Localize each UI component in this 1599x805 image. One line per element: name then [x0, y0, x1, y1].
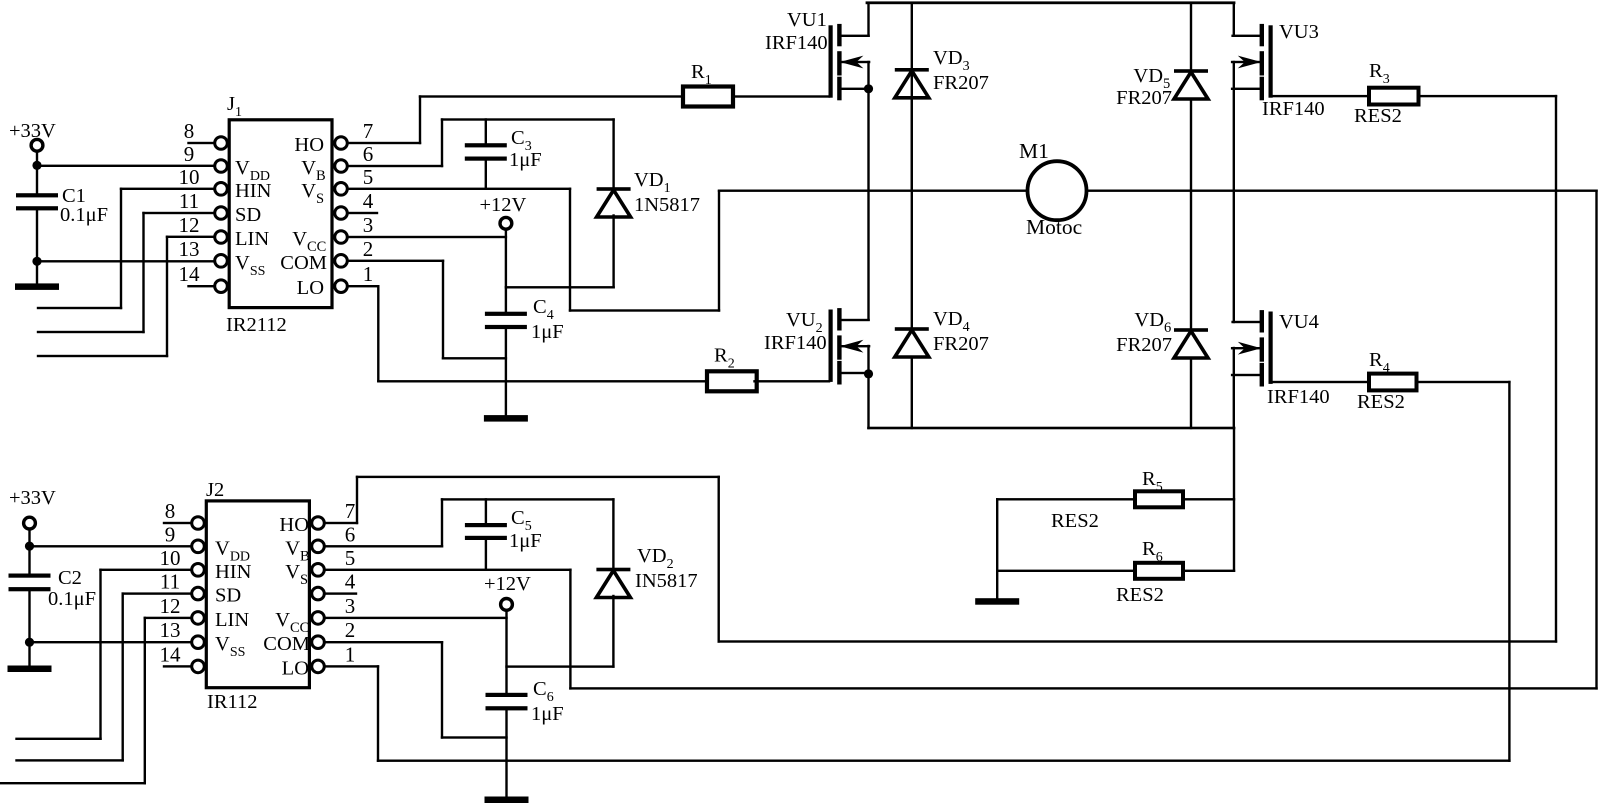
wire J2 LIN input	[144, 617, 193, 619]
VU2 channel dashes	[837, 308, 841, 330]
svg-text:3: 3	[363, 213, 374, 237]
wire J2 LO route to R4 column	[323, 665, 379, 667]
svg-text:RES2: RES2	[1357, 391, 1405, 413]
wire +33V to C1	[36, 150, 38, 194]
IC U1 IR2112 body	[229, 120, 332, 308]
svg-text:HIN: HIN	[215, 561, 252, 583]
diode VD5 FR207 upper-right	[1190, 2, 1192, 73]
diode VD3 FR207 upper-left	[911, 2, 913, 192]
diode VD1 1N5817 bootstrap	[612, 118, 614, 190]
ground G2	[484, 415, 528, 422]
wire VU3 source rail down to VU4 drain	[1233, 61, 1235, 323]
svg-text:9: 9	[184, 142, 195, 166]
J1 right pin circles 7-1	[335, 137, 348, 150]
wire VU2 source to bridge bottom	[867, 345, 869, 429]
svg-text:6: 6	[363, 142, 374, 166]
wire VU1 source rail down to VU2 drain	[867, 61, 869, 321]
svg-text:C4: C4	[533, 296, 554, 323]
ground G1	[15, 283, 59, 290]
svg-text:VD4: VD4	[933, 308, 970, 335]
svg-text:+33V: +33V	[9, 120, 56, 142]
wire J1 VS route to motor left node	[346, 188, 571, 190]
svg-text:C6: C6	[533, 678, 554, 705]
svg-text:IRF140: IRF140	[764, 332, 827, 354]
node dot VSS2/C2	[25, 638, 34, 647]
resistor R6 shunt	[996, 570, 1136, 572]
resistor R5 shunt	[996, 498, 1136, 500]
stub J1 pin 14	[187, 285, 215, 287]
VU4 body arrow	[1231, 347, 1261, 349]
ground G4	[485, 797, 529, 804]
wire +33V to C2	[28, 528, 30, 575]
wire VD6 anode to bridge bottom	[1190, 357, 1192, 429]
svg-text:C2: C2	[58, 567, 82, 589]
svg-text:R1: R1	[691, 61, 712, 88]
transistor VU2 IRF140 (gate bar)	[829, 310, 833, 382]
transistor VU4 IRF140 (gate bar)	[1269, 312, 1273, 384]
wire VU1 drain to bus	[867, 2, 869, 37]
VU3 source lead	[1231, 88, 1261, 90]
wire VU3 drain to bus	[1233, 2, 1235, 37]
J2 right pin circles 7-1	[312, 517, 325, 530]
svg-text:LO: LO	[297, 277, 324, 299]
svg-text:9: 9	[165, 522, 176, 546]
svg-text:VD1: VD1	[634, 169, 671, 196]
VU2 drain lead	[838, 319, 870, 321]
svg-text:12: 12	[179, 213, 200, 237]
VU4 source lead	[1231, 374, 1261, 376]
wire J1 VB line	[346, 165, 443, 167]
svg-text:IR112: IR112	[207, 691, 258, 713]
node dot VU2 source	[864, 369, 873, 378]
wire C6 to ground	[505, 709, 507, 798]
capacitor C5	[485, 498, 487, 524]
wire C1 to ground	[36, 209, 38, 285]
wire VU3 gate to R3	[1271, 95, 1370, 97]
diode VD4 FR207 lower-left	[895, 327, 929, 331]
node dot VU1 source	[864, 84, 873, 93]
wire bridge bottom edge	[867, 427, 1235, 430]
svg-text:+12V: +12V	[480, 194, 527, 216]
svg-text:2: 2	[345, 618, 356, 642]
wire J1 HO to R1	[346, 142, 421, 144]
svg-text:Motoc: Motoc	[1026, 215, 1082, 239]
capacitor C1	[16, 193, 58, 197]
svg-text:R3: R3	[1369, 60, 1390, 87]
wire motor right node to VS2 route	[1595, 190, 1597, 690]
svg-text:SD: SD	[235, 204, 261, 226]
wire J2 COM route	[323, 641, 443, 643]
wire VD3/VD4 column	[911, 97, 913, 330]
svg-text:8: 8	[165, 499, 176, 523]
svg-text:S: S	[300, 572, 308, 588]
svg-text:V: V	[292, 228, 307, 250]
svg-text:VD: VD	[1133, 65, 1163, 87]
stub J1 pin 4	[346, 212, 378, 214]
svg-text:0.1μF: 0.1μF	[60, 204, 108, 226]
motor M1 wire right	[1085, 190, 1597, 192]
stub J1 pin 8	[187, 142, 215, 144]
VU2 body arrow	[840, 345, 870, 347]
terminal +12V (J1 side)	[500, 217, 512, 229]
svg-text:4: 4	[363, 189, 374, 213]
wire C3 to VS line	[485, 159, 487, 190]
wire J1 LO to R2	[346, 285, 379, 287]
transistor VU1 IRF140 (gate bar)	[829, 25, 833, 97]
svg-text:J2: J2	[206, 479, 224, 501]
svg-text:14: 14	[179, 262, 201, 286]
stub J2 pin 14	[163, 665, 193, 667]
svg-text:7: 7	[363, 119, 374, 143]
VU4 channel dashes	[1260, 310, 1264, 332]
svg-text:IRF140: IRF140	[1262, 98, 1325, 120]
svg-text:+12V: +12V	[484, 573, 531, 595]
svg-text:FR207: FR207	[1116, 87, 1172, 109]
svg-text:12: 12	[160, 594, 181, 618]
svg-text:R2: R2	[714, 345, 735, 372]
wire VU4 gate to R4	[1271, 381, 1370, 383]
svg-text:VD3: VD3	[933, 47, 970, 74]
stub J2 pin 8	[163, 522, 193, 524]
svg-text:4: 4	[345, 570, 356, 594]
svg-text:IRF140: IRF140	[765, 32, 828, 54]
svg-text:LIN: LIN	[215, 609, 249, 631]
svg-text:J1: J1	[227, 93, 242, 120]
wire +12V down (J2)	[505, 609, 507, 694]
svg-text:V: V	[301, 157, 316, 179]
VU1 channel dashes	[837, 24, 841, 46]
svg-text:V: V	[275, 609, 290, 631]
svg-text:COM: COM	[280, 252, 327, 274]
svg-text:5: 5	[363, 165, 374, 189]
wire J2 VCC to +12V node	[323, 617, 507, 619]
resistor R2	[707, 371, 757, 391]
wire J1 COM route	[346, 260, 444, 262]
svg-text:1μF: 1μF	[509, 530, 542, 552]
svg-text:VD2: VD2	[637, 545, 674, 572]
ground G5	[975, 598, 1019, 605]
diode VD2 IN5817 bootstrap	[612, 498, 614, 571]
wire J2 VB line	[323, 545, 443, 547]
svg-text:HO: HO	[279, 514, 309, 536]
svg-text:11: 11	[179, 189, 199, 213]
svg-text:1: 1	[363, 262, 374, 286]
terminal +12V (J2 side)	[501, 599, 513, 611]
svg-text:1μF: 1μF	[531, 321, 564, 343]
wire R4 to LO2 route	[1415, 381, 1510, 383]
svg-text:B: B	[316, 168, 326, 184]
wire C2 to ground	[28, 590, 30, 667]
VU4 drain lead	[1231, 321, 1263, 323]
wire VU4 source to bridge bottom	[1233, 347, 1235, 429]
svg-text:3: 3	[345, 594, 356, 618]
wire VSS2 to J2 pin 13	[28, 641, 192, 643]
svg-text:FR207: FR207	[1116, 334, 1172, 356]
node dot +33V/VDD	[32, 161, 41, 170]
svg-text:LO: LO	[282, 657, 309, 679]
wire shunt left column to ground	[996, 498, 998, 600]
svg-text:IR2112: IR2112	[226, 314, 287, 336]
VU1 drain lead	[838, 35, 870, 37]
svg-text:RES2: RES2	[1051, 510, 1099, 532]
wire VD1 anode to +12V node	[505, 286, 615, 288]
IC U2 IR112 body	[206, 501, 309, 688]
wire J2 SD input	[122, 592, 193, 594]
wire J1 SD input	[142, 212, 215, 214]
capacitor C6	[486, 693, 528, 697]
svg-text:HO: HO	[294, 134, 324, 156]
wire VD5/VD6 column	[1190, 98, 1192, 331]
svg-text:1μF: 1μF	[509, 149, 542, 171]
motor M1	[1028, 161, 1087, 220]
svg-text:2: 2	[363, 237, 374, 261]
svg-text:M1: M1	[1019, 139, 1049, 163]
svg-text:COM: COM	[263, 633, 310, 655]
svg-text:IRF140: IRF140	[1267, 386, 1330, 408]
svg-text:11: 11	[160, 570, 180, 594]
capacitor C3	[485, 118, 487, 144]
wire VD2 anode to +12V node (J2)	[505, 665, 614, 667]
svg-text:5: 5	[345, 546, 356, 570]
VU1 body arrow	[840, 61, 870, 63]
wire R2 to VU2 gate	[753, 380, 830, 382]
svg-text:HIN: HIN	[235, 180, 272, 202]
svg-text:VD: VD	[1134, 309, 1164, 331]
svg-text:+33V: +33V	[9, 487, 56, 509]
wire J2 HIN input	[99, 569, 192, 571]
wire bridge bottom to shunt column	[1233, 427, 1235, 572]
svg-text:SD: SD	[215, 585, 241, 607]
svg-text:S: S	[316, 191, 324, 207]
wire R1 to VU1 gate	[732, 95, 830, 97]
wire VDD2 to J2 pin 9	[28, 545, 192, 547]
VU3 drain lead	[1231, 35, 1263, 37]
wire +12V down	[505, 228, 507, 313]
svg-text:10: 10	[179, 165, 200, 189]
svg-text:VU3: VU3	[1279, 21, 1319, 43]
node dot +33V/VDD2	[25, 542, 34, 551]
resistor R3	[1369, 88, 1419, 105]
svg-text:FR207: FR207	[933, 72, 989, 94]
capacitor C2	[9, 574, 51, 578]
svg-text:IN5817: IN5817	[635, 570, 698, 592]
svg-text:V: V	[285, 561, 300, 583]
svg-text:V: V	[285, 537, 300, 559]
svg-text:0.1μF: 0.1μF	[48, 588, 96, 610]
svg-text:V: V	[301, 180, 316, 202]
power terminal +33V (J1 side)	[31, 139, 43, 151]
wire J2 HO route to R3 column	[323, 522, 358, 524]
svg-text:VU1: VU1	[787, 9, 827, 31]
J1 left pin circles 8-14	[215, 137, 228, 150]
svg-text:6: 6	[345, 522, 356, 546]
wire J1 VCC to +12V node	[346, 236, 507, 238]
wire VDD to J1 pin 9	[36, 165, 216, 167]
transistor VU3 IRF140 (gate bar)	[1269, 25, 1273, 97]
svg-text:14: 14	[160, 642, 182, 666]
wire R3 to HO2 route	[1417, 95, 1557, 97]
svg-text:8: 8	[184, 119, 195, 143]
VU1 source lead	[838, 88, 870, 90]
ground G3	[8, 666, 52, 673]
svg-text:13: 13	[160, 618, 181, 642]
svg-text:RES2: RES2	[1116, 584, 1164, 606]
resistor R4	[1369, 374, 1417, 391]
VU3 body arrow	[1231, 61, 1261, 63]
VU3 channel dashes	[1260, 24, 1264, 46]
svg-text:VU4: VU4	[1279, 311, 1319, 333]
wire J2 VS route to motor right node	[323, 569, 571, 571]
wire VD4 anode to bridge bottom	[911, 356, 913, 429]
svg-text:LIN: LIN	[235, 228, 269, 250]
motor M1 wire left	[718, 190, 1029, 192]
wire C4 to ground	[505, 328, 507, 417]
svg-text:7: 7	[345, 499, 356, 523]
svg-text:1: 1	[345, 642, 356, 666]
svg-text:1N5817: 1N5817	[634, 194, 700, 216]
wire C5 to VS2 line	[485, 539, 487, 571]
power terminal +33V (J2 side)	[24, 517, 36, 529]
VU2 source lead	[838, 372, 870, 374]
J2 left pin circles 8-14	[192, 517, 205, 530]
svg-text:RES2: RES2	[1354, 105, 1402, 127]
svg-text:B: B	[300, 548, 310, 564]
stub J2 pin 4	[323, 592, 357, 594]
node dot VSS/C1	[32, 257, 41, 266]
wire J1 HIN input	[120, 188, 216, 190]
capacitor C4	[485, 312, 527, 316]
wire J1 LIN input	[166, 236, 216, 238]
svg-text:FR207: FR207	[933, 333, 989, 355]
svg-text:13: 13	[179, 237, 200, 261]
svg-text:1μF: 1μF	[531, 703, 564, 725]
diode VD6 FR207 lower-right	[1174, 328, 1208, 332]
wire VSS to J1 pin 13	[36, 260, 216, 262]
svg-text:10: 10	[160, 546, 181, 570]
resistor R1	[683, 87, 733, 107]
wire +33V top bus	[866, 1, 1236, 4]
